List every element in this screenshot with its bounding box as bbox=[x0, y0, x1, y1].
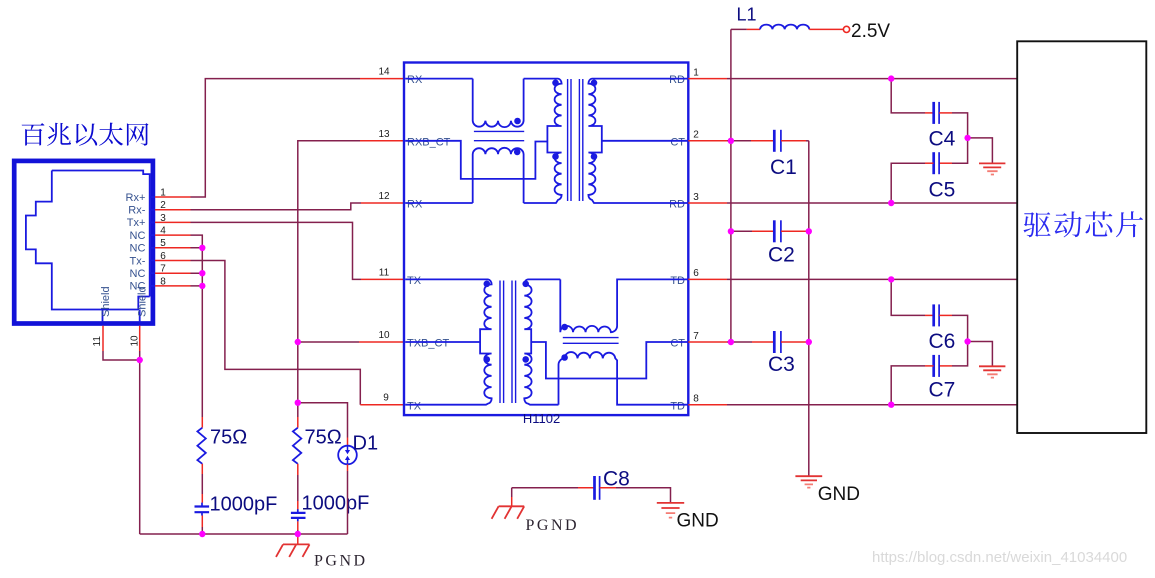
svg-text:TD: TD bbox=[670, 400, 685, 412]
junction dot pin1/C4 bbox=[888, 75, 894, 81]
T1 RX transformer primary winding (left of core) bbox=[524, 79, 562, 203]
svg-text:https://blog.csdn.net/weixin_4: https://blog.csdn.net/weixin_41034400 bbox=[872, 549, 1127, 566]
T1 TD choke core lines bbox=[563, 338, 619, 344]
T1 choke B polarity dot bbox=[514, 149, 521, 156]
T1 TX secondary top polarity dot bbox=[522, 281, 529, 288]
wire pin6/TD+ to driver chip bbox=[727, 278, 1017, 280]
pin stub T1 pin 2 red bbox=[688, 140, 727, 142]
RJ45 pin stubs red (pins 1-8) bbox=[155, 197, 191, 286]
junction dot C4/C5 mid bbox=[964, 135, 970, 141]
T1 choke D polarity dot bbox=[561, 354, 568, 361]
wire shield pin 11 drop bbox=[102, 326, 104, 351]
svg-text:RXB_CT: RXB_CT bbox=[407, 136, 451, 148]
wire Rx+ to T1 pin 14 bbox=[191, 79, 361, 197]
T1 pin names right bbox=[669, 74, 685, 412]
cap #2 bottom lead bbox=[297, 521, 299, 530]
svg-text:RX: RX bbox=[407, 199, 423, 211]
wire GND column (C1/C2/C3 return) bbox=[808, 141, 810, 476]
svg-text:NC: NC bbox=[130, 268, 146, 280]
wire C6 branch from pin 6 bbox=[891, 279, 925, 315]
inductor L1 coil bbox=[760, 25, 809, 30]
title 百兆以太网 bbox=[22, 123, 149, 146]
wire L1 feed column bbox=[730, 29, 732, 342]
svg-text:C7: C7 bbox=[929, 379, 956, 402]
ground symbol PGND (chassis, bottom left) bbox=[276, 544, 310, 557]
ground symbol PGND (chassis, at C8) bbox=[492, 506, 525, 519]
wire pin8/TD- to driver chip bbox=[727, 404, 1017, 406]
svg-text:Shield: Shield bbox=[136, 286, 148, 317]
svg-text:NC: NC bbox=[130, 230, 146, 242]
wire C3 to ground column bbox=[806, 341, 809, 343]
wire RXB_CT/TXB_CT bus bbox=[298, 141, 360, 438]
svg-text:TX: TX bbox=[407, 275, 422, 287]
resistor R1 75ohm bbox=[197, 428, 205, 464]
PGND stub red bbox=[297, 534, 299, 544]
pin stub T1 pin 8 red bbox=[688, 404, 727, 406]
junction dot C3 right bbox=[806, 339, 812, 345]
capacitor C1 right lead red bbox=[781, 140, 806, 142]
svg-text:GND: GND bbox=[677, 511, 719, 532]
RJ45 jack outline bbox=[26, 171, 150, 310]
ground symbol (C6/C7) bbox=[979, 366, 1005, 370]
junction dot D1 branch bbox=[295, 400, 301, 406]
svg-text:10: 10 bbox=[130, 335, 141, 347]
T1 internal: TX primary winding (left of core, bottom group) bbox=[405, 279, 491, 404]
T1 secondary bottom polarity dot bbox=[591, 153, 598, 160]
RJ45 connector J1 outer box bbox=[14, 161, 153, 324]
svg-text:Rx+: Rx+ bbox=[126, 192, 146, 204]
svg-text:11: 11 bbox=[379, 267, 390, 278]
wire PGND rail bbox=[140, 533, 348, 535]
svg-text:2.5V: 2.5V bbox=[851, 21, 890, 42]
T1 internal: RX choke coil A bbox=[473, 79, 524, 127]
wire bus red lead to R2 bbox=[297, 417, 299, 428]
pin stub T1 pin 11 red bbox=[361, 278, 404, 280]
inductor L1 right lead red bbox=[809, 28, 843, 30]
T1 TD choke coil D (bottom) bbox=[559, 352, 689, 405]
svg-text:13: 13 bbox=[378, 129, 390, 140]
svg-text:C2: C2 bbox=[768, 244, 795, 267]
pin stub T1 pin 12 red bbox=[361, 202, 404, 204]
cap #1 bottom lead bbox=[201, 516, 203, 528]
junction dot rail cap2 bbox=[295, 531, 301, 537]
driver chip label 驱动芯片 bbox=[1024, 211, 1144, 237]
svg-text:11: 11 bbox=[92, 336, 103, 347]
svg-text:7: 7 bbox=[693, 331, 699, 342]
wire C5 branch bbox=[952, 138, 968, 163]
svg-text:75Ω: 75Ω bbox=[305, 427, 342, 449]
wire C8 to GND bbox=[616, 488, 671, 503]
svg-text:C5: C5 bbox=[929, 179, 956, 202]
inductor L1 left lead red bbox=[747, 28, 760, 30]
wire red lead to D1 top bbox=[347, 438, 349, 446]
capacitor C3 right lead red bbox=[781, 341, 806, 343]
capacitor C3 left lead red bbox=[752, 341, 774, 343]
ground symbol GND (center) bbox=[795, 476, 822, 480]
svg-text:8: 8 bbox=[693, 394, 699, 405]
wire mid junction to ground stub (C4/C5) bbox=[968, 138, 993, 164]
svg-text:Tx+: Tx+ bbox=[127, 217, 146, 229]
T1 primary bottom polarity dot bbox=[552, 153, 559, 160]
wire Rx- to T1 pin 12 bbox=[191, 203, 362, 210]
T1 TX primary bottom polarity dot bbox=[484, 356, 491, 363]
pin stub T1 pin 1 red bbox=[688, 78, 727, 80]
T1 RX core vertical lines bbox=[568, 79, 583, 201]
pin stub T1 pin 3 red bbox=[688, 202, 727, 204]
RJ45 pin name labels bbox=[126, 192, 146, 293]
T1 TD choke coil C (top) bbox=[560, 279, 688, 332]
svg-text:9: 9 bbox=[383, 393, 389, 404]
svg-text:C3: C3 bbox=[768, 353, 795, 376]
wire NC bus (pins 4,5,7,8) bbox=[191, 235, 203, 417]
svg-text:RX: RX bbox=[407, 74, 423, 86]
T1 secondary CT lead to pin 2 bbox=[602, 140, 689, 142]
R2 bottom lead bbox=[297, 464, 299, 475]
wire L1 left segment bbox=[731, 28, 747, 30]
wire C4 branch from pin 1 bbox=[891, 79, 925, 113]
svg-text:TXB_CT: TXB_CT bbox=[407, 338, 449, 350]
wire mid junction to ground stub (C6/C7) bbox=[968, 342, 993, 367]
junction dot pin7/CT bbox=[728, 339, 734, 345]
T1 RX transformer secondary winding (right of core) bbox=[588, 79, 688, 203]
junction dot pin8/C7 bbox=[888, 402, 894, 408]
T1 internal: RX choke core lines bbox=[474, 131, 524, 140]
capacitor 1000pF #2 plates bbox=[297, 509, 299, 521]
T1 pin numbers left bbox=[378, 67, 390, 404]
junction dot C6/C7 mid bbox=[964, 338, 970, 344]
wire pin1/RD+ to driver chip bbox=[727, 78, 1017, 80]
wire C7 to pin 8 bbox=[891, 366, 925, 405]
capacitor C1 plates bbox=[773, 130, 776, 152]
wire C4 to mid junction bbox=[952, 113, 968, 138]
svg-text:PGND: PGND bbox=[314, 553, 368, 570]
pin stub T1 pin 14 red bbox=[360, 78, 404, 80]
capacitor 1000pF #1 plates bbox=[201, 503, 203, 516]
capacitor C7 left lead red bbox=[925, 365, 934, 367]
wire pin3/RD- to driver chip bbox=[727, 202, 1017, 204]
capacitor C1 left lead red bbox=[751, 140, 774, 142]
resistor R2 75ohm bbox=[293, 428, 301, 464]
T1 internal: RX choke coil B bbox=[473, 148, 524, 203]
pin stub T1 pin 7 red bbox=[688, 341, 727, 343]
svg-text:6: 6 bbox=[693, 268, 699, 279]
wire shield column down to PGND rail bbox=[139, 351, 141, 534]
pin stub T1 pin 10 red bbox=[359, 341, 404, 343]
svg-text:1000pF: 1000pF bbox=[210, 494, 278, 516]
wire pin7 CT segment bbox=[727, 341, 752, 343]
svg-text:TX: TX bbox=[407, 400, 422, 412]
svg-text:Tx-: Tx- bbox=[130, 255, 146, 267]
capacitor C6 right lead red bbox=[939, 314, 952, 316]
wire Tx- to T1 pin 9 bbox=[191, 261, 361, 405]
T1 internal: pin 14 lead bbox=[405, 78, 473, 80]
D1 bottom lead bbox=[347, 464, 349, 471]
T1 TX primary CT lead to pin 10 bbox=[405, 341, 480, 343]
capacitor C8 left lead red bbox=[578, 487, 594, 489]
R1 bottom lead bbox=[201, 464, 203, 474]
svg-text:RD: RD bbox=[669, 74, 685, 86]
ground symbol (C4/C5) bbox=[979, 163, 1005, 167]
svg-text:75Ω: 75Ω bbox=[210, 427, 247, 449]
junction dot pin8 NC bbox=[199, 283, 205, 289]
svg-text:Shield: Shield bbox=[100, 286, 112, 317]
RJ45 pin stubs (blue, pins 1-8) bbox=[150, 197, 155, 286]
capacitor C6 plates bbox=[932, 304, 935, 326]
capacitor C8 right lead red bbox=[600, 487, 616, 489]
capacitor C2 plates bbox=[773, 220, 776, 242]
junction dot pin5 NC bbox=[199, 245, 205, 251]
svg-text:TD: TD bbox=[670, 275, 685, 287]
power terminal circle 2.5V bbox=[843, 26, 849, 32]
pin stub T1 pin 6 red bbox=[688, 278, 727, 280]
junction dot pin7 NC bbox=[199, 270, 205, 276]
wire NC bus red lead to R1 bbox=[201, 417, 203, 428]
svg-text:L1: L1 bbox=[737, 5, 757, 25]
RJ45 shield stubs (blue) bbox=[103, 310, 140, 323]
svg-text:H1102: H1102 bbox=[523, 411, 560, 426]
svg-text:C6: C6 bbox=[929, 330, 956, 353]
junction dot rail cap1 bbox=[199, 531, 205, 537]
T1 TX secondary CT route to pin 7 bbox=[531, 342, 688, 379]
svg-text:RD: RD bbox=[669, 199, 685, 211]
T1 choke C polarity dot bbox=[561, 324, 568, 331]
svg-text:GND: GND bbox=[818, 484, 860, 505]
driver chip box bbox=[1017, 41, 1146, 433]
junction dot pin6/C6 bbox=[888, 276, 894, 282]
capacitor C2 right lead bbox=[781, 230, 806, 232]
wire Tx+ to T1 pin 11 bbox=[191, 222, 362, 279]
junction dot pin2/L1 bbox=[728, 138, 734, 144]
pin stub T1 pin 13 red bbox=[360, 140, 404, 142]
T1 choke A polarity dot bbox=[514, 118, 521, 125]
capacitor C7 plates bbox=[932, 355, 935, 377]
T1 TX secondary bottom polarity dot bbox=[522, 356, 529, 363]
svg-text:12: 12 bbox=[378, 191, 390, 202]
svg-text:C1: C1 bbox=[770, 156, 797, 179]
svg-text:D1: D1 bbox=[353, 433, 379, 455]
RJ45 pin numbers 1-8 bbox=[160, 187, 166, 287]
svg-text:10: 10 bbox=[378, 330, 390, 341]
junction dot TXB_CT bbox=[295, 339, 301, 345]
svg-text:14: 14 bbox=[378, 67, 390, 78]
capacitor C5 plates bbox=[932, 152, 935, 174]
T1 internal: pin 12 lead bbox=[405, 202, 473, 204]
svg-text:1: 1 bbox=[693, 67, 699, 78]
junction dot pin3/C5 bbox=[888, 200, 894, 206]
pin stub T1 pin 9 red bbox=[360, 404, 404, 406]
svg-text:1000pF: 1000pF bbox=[302, 493, 370, 515]
svg-text:3: 3 bbox=[693, 192, 699, 203]
T1 TX primary top polarity dot bbox=[484, 281, 491, 288]
ground symbol GND (at C8) bbox=[657, 503, 684, 508]
T1 TX secondary winding (right of core, bottom group) bbox=[524, 279, 560, 404]
T1 primary top polarity dot bbox=[552, 80, 559, 87]
svg-text:2: 2 bbox=[693, 130, 699, 141]
capacitor C8 plates bbox=[593, 476, 596, 500]
capacitor C2 left lead bbox=[731, 230, 752, 232]
wire shield pin 10 drop bbox=[139, 326, 141, 351]
junction dot C2 left bbox=[728, 228, 734, 234]
wire C6 to mid junction bbox=[952, 315, 968, 341]
svg-text:NC: NC bbox=[130, 243, 146, 255]
wire pin2 CT segment bbox=[727, 140, 751, 142]
T1 internal: pin 13 lead + CT jog to primary bbox=[405, 141, 547, 179]
junction dot shield join bbox=[137, 357, 143, 363]
wire C7 branch bbox=[952, 342, 968, 366]
wire C1 to ground column bbox=[806, 140, 809, 142]
T1 TX core vertical lines bbox=[500, 281, 516, 404]
diode D1 internal arrows bbox=[347, 447, 349, 451]
svg-text:CT: CT bbox=[670, 338, 685, 350]
capacitor C4 plates bbox=[932, 102, 935, 124]
T1 pin names left bbox=[407, 74, 451, 412]
junction dot C2 right bbox=[806, 228, 812, 234]
capacitor C4 right lead red bbox=[939, 112, 952, 114]
svg-text:Rx-: Rx- bbox=[128, 205, 145, 217]
wire C5 to pin 3 bbox=[891, 163, 925, 203]
capacitor C6 left lead red bbox=[925, 314, 934, 316]
svg-text:C8: C8 bbox=[603, 468, 630, 491]
transformer T1 box bbox=[404, 63, 688, 416]
wire C8 link bbox=[512, 488, 578, 497]
T1 pin numbers right bbox=[693, 67, 699, 404]
capacitor C4 left lead red bbox=[925, 112, 934, 114]
PGND2 stub red bbox=[511, 497, 513, 506]
capacitor C7 right lead red bbox=[939, 365, 952, 367]
T1 secondary top polarity dot bbox=[591, 80, 598, 87]
svg-text:PGND: PGND bbox=[526, 517, 580, 534]
capacitor C5 left lead red bbox=[925, 162, 934, 164]
capacitor C3 plates bbox=[773, 331, 776, 353]
svg-text:CT: CT bbox=[670, 136, 685, 148]
svg-text:C4: C4 bbox=[929, 128, 956, 151]
diode D1 circle bbox=[338, 446, 357, 465]
capacitor C5 right lead red bbox=[939, 162, 952, 164]
